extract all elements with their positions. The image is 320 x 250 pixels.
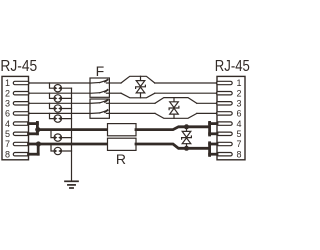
connector J2 right RJ-45 body bbox=[217, 76, 245, 159]
pin numbers J1 bbox=[5, 78, 10, 159]
svg-text:R: R bbox=[116, 151, 126, 167]
svg-text:5: 5 bbox=[5, 129, 10, 139]
svg-text:2: 2 bbox=[237, 88, 242, 98]
junction node TVS top bbox=[184, 124, 189, 129]
gas discharge arrester G5 branch (pair 4-5) bbox=[51, 130, 72, 142]
junction node 7-8 left bbox=[36, 141, 41, 146]
fuse block F lower box bbox=[90, 99, 109, 118]
wire pair 3-6 to right connector bbox=[197, 102, 217, 104]
wire pin3 left bbox=[29, 102, 91, 104]
fuse F4 (line 6) bbox=[90, 110, 109, 113]
thick lead pin4 left bbox=[29, 122, 108, 154]
TVS diode D1 (pair 1-2) bbox=[136, 76, 146, 98]
gas discharge arrester G4 branch (line 6) bbox=[50, 113, 72, 122]
thick tie bar 7-8 left bbox=[37, 144, 40, 154]
TVS diode D2 (pair 3-6) bbox=[169, 98, 179, 119]
thick lead pin7 left bbox=[29, 143, 39, 146]
wire pin6 left bbox=[29, 112, 91, 114]
svg-text:F: F bbox=[96, 63, 105, 79]
svg-text:1: 1 bbox=[5, 78, 10, 88]
fuse F3 (line 3) bbox=[90, 100, 109, 103]
thick lead pin8 left bbox=[29, 153, 39, 156]
svg-text:5: 5 bbox=[237, 129, 242, 139]
wire pin2 left bbox=[29, 92, 91, 94]
conductor 4/5 to R bbox=[37, 128, 107, 131]
svg-text:2: 2 bbox=[5, 88, 10, 98]
conductor 7/8 right of R with jog bbox=[136, 144, 209, 148]
svg-text:3: 3 bbox=[5, 99, 10, 109]
gas discharge arrester G3 branch (line 3) bbox=[50, 103, 72, 112]
resistor R2 body (pair 7-8) bbox=[108, 138, 137, 150]
thick tie bracket 7-8 right bbox=[208, 143, 211, 156]
svg-text:4: 4 bbox=[5, 119, 10, 129]
wire pair 1-2 into surge envelope bbox=[109, 82, 121, 84]
surge envelope pair 1-2 bbox=[121, 76, 155, 83]
thick tie bracket 4-5 right bbox=[210, 122, 217, 155]
svg-text:4: 4 bbox=[237, 119, 242, 129]
svg-text:RJ-45: RJ-45 bbox=[0, 58, 37, 75]
junction node TVS bottom bbox=[184, 146, 189, 151]
pin contacts J2 bbox=[216, 81, 232, 156]
gas discharge arrester G1 branch (line 1) bbox=[50, 83, 72, 92]
svg-text:1: 1 bbox=[237, 78, 242, 88]
svg-text:7: 7 bbox=[5, 139, 10, 149]
gas discharge arrester G2 branch (line 2) bbox=[50, 93, 72, 102]
TVS diode D3 (between 4/5 and 7/8) bbox=[182, 127, 192, 149]
junction node 4-5 left bbox=[35, 127, 40, 132]
fuse F1 (line 1) bbox=[90, 80, 109, 83]
svg-text:8: 8 bbox=[237, 149, 242, 159]
thick lead pin5 left bbox=[29, 132, 38, 135]
svg-text:RJ-45: RJ-45 bbox=[215, 58, 250, 75]
conductor 7/8 to R bbox=[38, 143, 107, 146]
connector J1 left RJ-45 body bbox=[2, 76, 29, 159]
surge envelope pair 3-6 bbox=[155, 98, 197, 104]
fuse F2 (line 2) bbox=[90, 90, 109, 93]
svg-text:6: 6 bbox=[237, 109, 242, 119]
wire pair 3-6 into surge envelope bbox=[109, 102, 155, 104]
pin contacts J1 bbox=[13, 81, 29, 156]
thick tie bar 4-5 left bbox=[36, 122, 39, 133]
resistor R1 body (pair 4-5) bbox=[108, 124, 137, 136]
pin numbers J2 bbox=[237, 78, 242, 159]
svg-text:8: 8 bbox=[5, 149, 10, 159]
wire pair 1-2 to right connector bbox=[155, 82, 217, 84]
wire pin1 left bbox=[29, 82, 91, 84]
gas discharge arrester G6 branch (pair 7-8) bbox=[51, 144, 72, 155]
conductor 4/5 right of R with jog bbox=[136, 127, 209, 130]
svg-text:3: 3 bbox=[237, 99, 242, 109]
fuse block F upper box bbox=[90, 78, 109, 97]
svg-text:7: 7 bbox=[237, 139, 242, 149]
svg-text:6: 6 bbox=[5, 109, 10, 119]
ground bus wire bbox=[71, 88, 73, 180]
ground symbol bbox=[65, 181, 78, 188]
